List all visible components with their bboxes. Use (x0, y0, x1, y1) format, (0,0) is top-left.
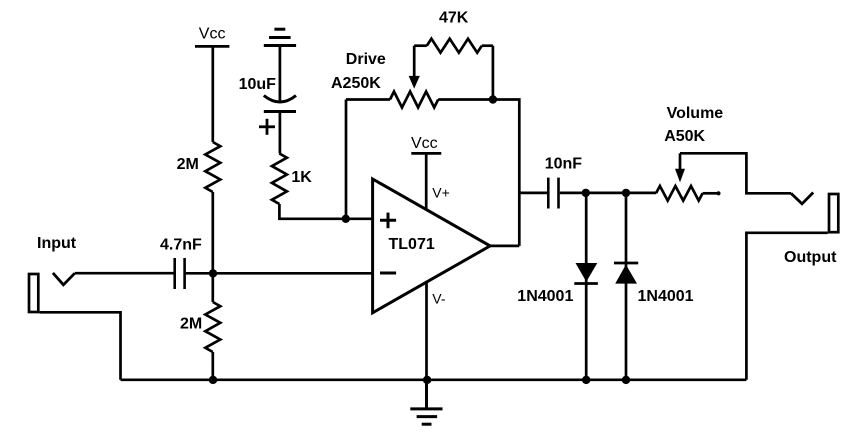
Vcc power symbol (op-amp V+) (411, 153, 441, 209)
potentiometer Volume A50K (656, 153, 721, 200)
wire volume wiper to output jack (680, 153, 791, 193)
node input junction dot (209, 269, 217, 277)
node dot diode1 bottom (582, 376, 590, 384)
node dot diode2 bottom (622, 376, 630, 384)
svg-text:1N4001: 1N4001 (517, 288, 573, 305)
output jack tip contact (791, 193, 813, 204)
wire 4.7nF to op-amp - input (186, 272, 373, 275)
Vcc power symbol (left rail) (195, 45, 229, 48)
svg-text:1N4001: 1N4001 (638, 288, 694, 305)
svg-text:2M: 2M (177, 156, 199, 173)
svg-text:V+: V+ (432, 185, 450, 201)
ground symbol (inverted, above 10uF) (264, 29, 296, 45)
wire 1K to + input node (279, 204, 345, 219)
input jack body (29, 274, 38, 312)
node dot noninverting junction (342, 215, 350, 223)
capacitor C 10uF polarized (259, 96, 296, 135)
wire op-amp output (490, 245, 519, 248)
svg-text:4.7nF: 4.7nF (160, 236, 202, 253)
op-amp U1 TL071 (373, 179, 491, 313)
svg-text:A250K: A250K (331, 75, 381, 92)
wire input to 4.7nF (75, 272, 174, 275)
input jack tip contact (53, 273, 75, 285)
ground symbol (bottom) (410, 380, 442, 424)
svg-text:1K: 1K (291, 169, 312, 186)
node dot ground junction (423, 376, 431, 384)
wire 10uF to 1K (279, 112, 282, 154)
node dot feedback junction (489, 95, 497, 103)
wire diode1 to diode2 node (586, 192, 626, 195)
diode D1 1N4001 (cathode down) (574, 193, 598, 380)
potentiometer Drive A250K body (346, 46, 493, 108)
svg-text:A50K: A50K (664, 128, 705, 145)
wire output to 10nF (519, 192, 547, 195)
svg-text:Volume: Volume (667, 105, 724, 122)
capacitor 10nF (548, 178, 558, 209)
wire diode2 node to volume pot (626, 192, 656, 195)
svg-text:V-: V- (432, 291, 446, 307)
wire Vcc bar to 2M top (211, 46, 214, 142)
svg-text:Drive: Drive (346, 51, 386, 68)
node dot diode2 top (622, 189, 630, 197)
wire input node to 2M bottom (211, 273, 214, 302)
svg-text:Output: Output (784, 249, 837, 266)
wire 10nF to diode node (560, 192, 586, 195)
resistor 1K (272, 154, 287, 205)
wire Drive pot left lead down (345, 100, 348, 219)
svg-text:2M: 2M (180, 316, 202, 333)
svg-text:TL071: TL071 (389, 236, 435, 253)
wire 2M bottom to rail (211, 352, 214, 380)
resistor 47K (414, 39, 493, 53)
node dot diode1 top (582, 189, 590, 197)
svg-text:10nF: 10nF (545, 156, 583, 173)
wire output sleeve (746, 233, 827, 380)
wire feedback to output vertical (493, 100, 519, 246)
svg-text:10uF: 10uF (239, 76, 277, 93)
wire bottom ground rail (121, 378, 747, 381)
wire 2M to input node (211, 192, 214, 273)
output jack body (829, 194, 838, 232)
svg-text:Vcc: Vcc (411, 135, 438, 152)
node dot 2M-rail (209, 376, 217, 384)
svg-text:Vcc: Vcc (199, 25, 226, 42)
wire V- pin to ground rail (425, 282, 428, 380)
diode D2 1N4001 (cathode up) (614, 193, 638, 380)
wire 47K right lead down (492, 46, 495, 100)
svg-text:47K: 47K (439, 9, 469, 26)
wire input jack sleeve (40, 312, 121, 380)
resistor 2M (top) (205, 142, 220, 192)
resistor 2M (bottom) (205, 302, 220, 352)
svg-text:Input: Input (37, 235, 77, 252)
wire node to op-amp + input (346, 217, 373, 220)
capacitor 4.7nF (175, 258, 185, 289)
wire ground to 10uF (279, 46, 282, 102)
